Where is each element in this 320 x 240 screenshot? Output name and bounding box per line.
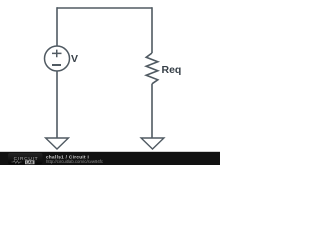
svg-text:V: V xyxy=(71,53,78,65)
svg-text:LAB: LAB xyxy=(26,161,34,165)
ground left xyxy=(46,138,69,149)
CircuitLab logo xyxy=(8,153,43,165)
wire top horizontal xyxy=(57,7,152,9)
wire source to ground xyxy=(56,71,58,138)
svg-text:http://circuitlab.com/c/svw94f: http://circuitlab.com/c/svw94fc xyxy=(46,159,104,164)
resistor Req xyxy=(146,53,158,84)
watermark bar xyxy=(0,152,220,165)
wire left vertical (top to source) xyxy=(56,7,58,46)
wire right vertical (top to resistor) xyxy=(151,7,153,53)
ground right xyxy=(141,138,164,149)
svg-text:Req: Req xyxy=(162,64,182,76)
wire resistor to ground xyxy=(151,84,153,138)
voltage source V xyxy=(45,46,70,71)
